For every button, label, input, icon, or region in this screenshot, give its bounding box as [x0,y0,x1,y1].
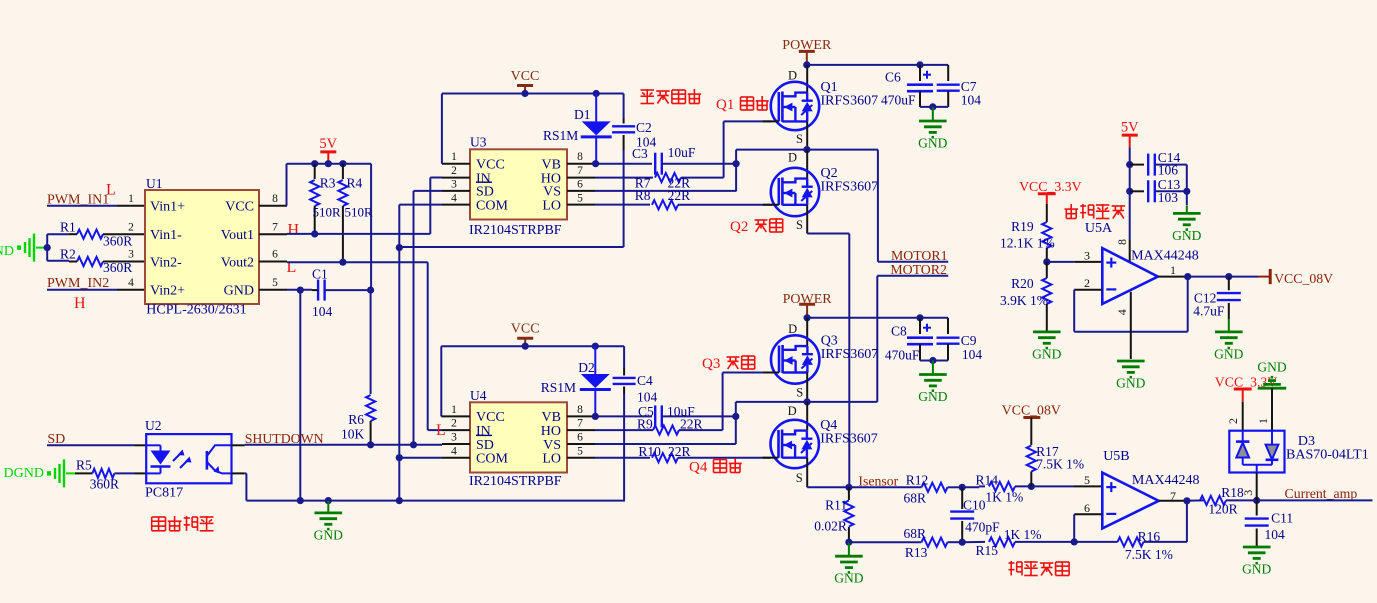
power VCC port U4 [511,322,540,347]
svg-text:GND: GND [918,136,947,151]
pin 4 U3 COM [442,192,470,204]
svg-text:VCC_08V: VCC_08V [1002,402,1061,417]
svg-text:R8: R8 [635,188,651,203]
svg-text:R14: R14 [976,473,999,488]
wire R7 to Q1 gate [724,121,772,177]
ground GND inverted D3 [1257,360,1286,431]
svg-text:1: 1 [451,404,457,416]
svg-text:VCC_3.3V: VCC_3.3V [1019,179,1082,194]
svg-text:7.5K 1%: 7.5K 1% [1125,547,1173,562]
svg-text:LO: LO [542,452,561,467]
svg-text:8: 8 [1115,239,1129,245]
svg-text:7: 7 [577,418,583,430]
wire R12 to R14 [962,485,985,488]
svg-text:Q3: Q3 [702,356,720,372]
annotation 半桥驱动 [641,89,702,104]
svg-text:D: D [788,68,797,82]
svg-text:GND: GND [224,284,254,299]
capacitor C1 104 [297,267,375,320]
wire C3 to switch node [736,150,878,192]
transistor Q2 IRFS3607 [763,150,878,234]
wire SD to U2 [47,444,146,446]
op-amp U3 IR2104 driver IC [469,135,567,238]
svg-text:IRFS3607: IRFS3607 [821,347,879,362]
op-amp U4 IR2104 driver IC [469,388,567,489]
svg-text:4: 4 [451,445,457,457]
net label MOTOR1 [878,150,948,263]
svg-text:104: 104 [312,304,333,319]
pin 4 U4 COM [399,445,470,457]
wire capacitor ground rail 1 [920,103,948,110]
svg-text:Vin2-: Vin2- [150,255,182,270]
capacitor C8 470uF [885,318,933,363]
svg-text:3: 3 [128,249,134,261]
op-amp U5B MAX44248 [1102,449,1199,528]
svg-text:Q4: Q4 [689,460,708,476]
annotation Q2关断 [730,219,783,235]
svg-text:Vout1: Vout1 [221,228,254,243]
power VCC_3.3V port R19 [1019,179,1082,222]
ground GND main rail [314,501,343,543]
wire C14 C13 ground drop [1183,165,1190,205]
svg-text:Current_amp: Current_amp [1285,486,1358,501]
op-amp U1 HCPL-2630/2631 optocoupler IC [145,176,259,318]
svg-text:IRFS3607: IRFS3607 [821,94,879,109]
svg-text:22R: 22R [668,444,691,459]
svg-text:GND: GND [1242,562,1271,577]
diode D3 BAS70-04LT1 [1226,418,1369,473]
svg-text:MAX44248: MAX44248 [1131,249,1199,264]
svg-text:Vin1-: Vin1- [150,228,182,243]
svg-text:IR2104STRPBF: IR2104STRPBF [469,474,562,489]
svg-text:6: 6 [577,179,583,191]
net label SHUTDOWN [245,431,324,446]
svg-text:PC817: PC817 [145,486,183,501]
svg-text:2: 2 [1226,418,1240,424]
ground GND R20 [1032,332,1061,362]
resistor R17 7.5K 1% [1027,444,1084,487]
resistor R6 10K [341,395,375,445]
resistor R20 3.9K 1% [1000,262,1051,331]
ground AGND [0,234,47,262]
node AGND junction [44,234,69,261]
ground GND C11 [1242,547,1271,577]
pin 2 U4 IN [436,418,470,439]
annotation Q4导通 [689,459,742,476]
ground GND U5A pin4 [1116,361,1145,391]
resistor R9 22R [595,416,723,434]
resistor R19 12.1K 1% [1000,219,1055,266]
svg-text:103: 103 [1158,190,1179,205]
svg-text:GND: GND [834,571,863,586]
wire C2 ground return [399,246,623,248]
svg-text:360R: 360R [103,233,132,248]
transistor Q4 IRFS3607 [763,402,878,487]
svg-text:1: 1 [128,193,134,205]
pin 1 U5A output [1158,263,1233,280]
svg-text:0.02R: 0.02R [814,519,847,534]
pin 6 U5B inverting [1074,501,1102,542]
svg-text:U5A: U5A [1085,221,1113,236]
svg-text:4: 4 [451,192,457,204]
svg-text:Vin2+: Vin2+ [150,284,185,299]
svg-text:U5B: U5B [1103,449,1129,464]
wire U3 COM to ground [396,205,442,501]
svg-text:8: 8 [577,404,583,416]
svg-text:D: D [788,322,797,336]
svg-text:IRFS3607: IRFS3607 [821,180,879,195]
capacitor C14 106 [1130,150,1187,178]
net label PWM_IN2 [47,276,109,312]
svg-text:U2: U2 [145,418,162,433]
svg-text:10K: 10K [341,427,365,442]
svg-text:U4: U4 [470,388,487,403]
svg-text:LO: LO [542,198,561,213]
svg-text:7: 7 [1170,489,1176,503]
svg-text:H: H [288,222,300,239]
transistor Q3 IRFS3607 [763,318,878,402]
svg-text:HO: HO [541,424,561,439]
resistor R4 510R [338,164,373,263]
svg-text:7: 7 [272,221,278,233]
annotation 过流保护 [1065,204,1126,219]
pin 7 U3 HO [567,165,595,178]
svg-text:Isensor: Isensor [858,473,898,488]
pin 2 U3 IN [442,165,470,178]
svg-text:VCC: VCC [511,322,540,337]
wire Isensor row [849,486,922,488]
capacitor C7 104 [937,65,982,108]
svg-text:5: 5 [577,192,583,204]
resistor R3 510R [310,164,341,234]
resistor R7 22R [595,173,724,190]
op-amp U2 PC817 optocoupler [145,418,232,501]
svg-text:22R: 22R [680,416,703,431]
resistor R1 [60,220,145,249]
svg-text:C11: C11 [1271,511,1293,526]
svg-text:R1: R1 [60,220,76,235]
svg-text:22R: 22R [668,188,691,203]
svg-text:R20: R20 [1011,276,1034,291]
svg-text:3.9K 1%: 3.9K 1% [1000,293,1048,308]
svg-text:VCC_08V: VCC_08V [1274,271,1333,286]
pin 6 U4 VS [567,432,736,444]
svg-text:106: 106 [1158,163,1179,178]
svg-text:C9: C9 [961,333,977,348]
power POWER port 2 [783,292,833,318]
resistor R11 0.02R shunt [814,487,853,546]
wire VCC rail U3 [442,90,624,164]
svg-text:D: D [788,404,797,418]
svg-text:5: 5 [577,445,583,457]
svg-text:AGND: AGND [0,244,14,259]
wire net H row [287,178,442,238]
pin 6 U3 VS [567,179,736,191]
pin 8 U3 VB [567,151,599,167]
net label Current_amp [1257,486,1373,501]
svg-text:510R: 510R [313,205,342,220]
wire bottom sense row [849,539,966,546]
annotation 电流采集 [1009,561,1070,576]
wire 5V rail [287,160,372,167]
svg-text:C6: C6 [885,69,901,84]
pin 7 U5B output [1159,489,1204,504]
svg-text:104: 104 [637,389,658,404]
annotation Q1导通 [716,96,769,113]
svg-text:12.1K 1%: 12.1K 1% [1000,236,1055,251]
svg-text:360R: 360R [90,476,119,491]
net label Isensor [858,473,898,488]
svg-text:COM: COM [476,198,508,213]
svg-text:68R: 68R [904,491,927,506]
svg-text:Vout2: Vout2 [221,255,254,270]
capacitor C5 10uF [595,404,739,428]
svg-text:MOTOR2: MOTOR2 [890,262,947,277]
wire U3 SD to SHUTDOWN [414,191,443,445]
svg-text:MAX44248: MAX44248 [1132,473,1200,488]
power 5V port U5A [1121,120,1139,165]
resistor R5 360R [75,458,146,492]
ground GND shunt [834,542,863,586]
svg-text:104: 104 [1265,527,1286,542]
svg-text:VCC: VCC [225,200,254,215]
pin 8 U1 VCC [259,164,287,206]
capacitor C12 4.7uF [1193,277,1241,320]
svg-text:Q2: Q2 [730,219,748,235]
pin 5 U3 LO [567,192,595,204]
svg-text:2: 2 [128,221,134,233]
svg-text:R3: R3 [320,175,336,190]
svg-text:RS1M: RS1M [541,380,576,395]
svg-text:C10: C10 [963,498,986,513]
svg-text:470uF: 470uF [881,92,916,107]
wire R19 R20 to pin 3 [1047,249,1103,263]
resistor R13 68R [904,526,963,560]
svg-text:GND: GND [1116,376,1145,391]
svg-text:IR2104STRPBF: IR2104STRPBF [469,223,562,238]
svg-text:GND: GND [1032,346,1061,361]
svg-text:1: 1 [1256,418,1270,424]
wire PWM_IN2 to U1 pin 4 [47,277,145,290]
ground GND C12 [1214,319,1243,362]
node switch node 2 [804,398,811,405]
svg-text:C4: C4 [637,373,653,388]
pin 7 U1 Vout1 net H [259,221,300,238]
capacitor C3 10uF [596,145,740,175]
capacitor C11 104 [1245,500,1293,547]
svg-text:3: 3 [451,432,457,444]
capacitor C10 470pF [950,487,1000,542]
svg-text:Vin1+: Vin1+ [150,200,185,215]
power VCC_08V port output [1229,269,1333,286]
power VCC port U3 [511,69,540,94]
svg-text:C3: C3 [632,146,648,161]
svg-text:IN: IN [476,424,491,439]
svg-text:2: 2 [451,165,457,177]
svg-text:R6: R6 [348,412,364,427]
resistor R2 [60,246,145,275]
svg-text:R12: R12 [906,473,929,488]
wire ground rail [246,497,624,504]
wire R14 to U5B pin 5 [1031,473,1102,487]
svg-text:Q1: Q1 [716,97,734,113]
ground DGND [4,459,75,487]
node switch node 1 [803,146,810,153]
capacitor C4 104 [613,346,658,500]
wire net L row [287,259,442,431]
svg-text:VCC: VCC [476,158,505,173]
svg-text:R9: R9 [637,416,653,431]
annotation Q3关断 [702,356,755,372]
svg-text:4.7uF: 4.7uF [1193,304,1225,319]
svg-text:COM: COM [476,452,508,467]
wire Q2 source to shunt [807,234,849,488]
diode D2 RS1M [541,346,611,416]
power VCC_08V port R17 [1002,402,1061,445]
svg-text:5: 5 [1084,473,1090,487]
svg-text:3: 3 [1084,249,1090,263]
svg-text:R19: R19 [1011,219,1034,234]
power VCC_3.3V port D3 [1215,375,1278,431]
diode D1 RS1M [543,94,612,164]
svg-text:7.5K 1%: 7.5K 1% [1036,456,1084,471]
svg-text:GND: GND [1172,228,1201,243]
capacitor C13 103 [1130,177,1187,205]
net label SD [47,432,65,447]
svg-text:GND: GND [918,389,947,404]
svg-text:IRFS3607: IRFS3607 [820,432,878,447]
pin 8 U4 VB [567,404,599,420]
svg-text:D2: D2 [578,360,595,375]
svg-text:R2: R2 [60,246,76,261]
wire Q4 source to shunt [807,484,852,491]
wire C5 to switch node 2 [736,402,878,444]
svg-text:L: L [436,422,446,439]
net label PWM_IN1 [47,182,116,208]
svg-text:R10: R10 [638,444,661,459]
svg-text:4: 4 [128,277,134,289]
svg-text:10uF: 10uF [668,145,696,160]
op-amp U5A MAX44248 [1085,221,1199,304]
svg-text:6: 6 [1084,501,1090,515]
svg-text:6: 6 [577,432,583,444]
resistor R16 7.5K 1% [1074,501,1187,562]
wire GND drop from U1 [299,290,301,501]
svg-text:5V: 5V [1121,120,1139,136]
svg-text:5: 5 [272,277,278,289]
svg-text:2: 2 [451,418,457,430]
svg-text:R15: R15 [976,543,999,558]
svg-text:GND: GND [1257,360,1286,375]
wire SHUTDOWN row [232,441,443,448]
svg-text:470pF: 470pF [965,519,1000,534]
svg-text:S: S [796,218,803,232]
svg-text:U3: U3 [470,135,487,150]
svg-text:U1: U1 [146,176,163,191]
pin 2 U5A inverting feedback [1074,276,1188,332]
svg-text:S: S [796,132,803,146]
resistor R14 1K 1% [976,473,1035,505]
wire PWM_IN1 to U1 pin 1 [47,193,145,206]
ground GND C13 C14 [1172,205,1201,243]
svg-text:R11: R11 [825,498,847,513]
svg-text:S: S [796,386,803,400]
annotation 光耦隔离 [152,516,214,531]
power POWER port 1 [782,38,832,65]
svg-text:SHUTDOWN: SHUTDOWN [245,431,324,446]
svg-text:POWER: POWER [783,292,833,307]
svg-text:1: 1 [451,151,457,163]
resistor R8 22R [595,188,772,209]
svg-text:S: S [796,471,803,485]
svg-text:VCC: VCC [511,69,540,84]
svg-text:R4: R4 [347,175,363,190]
capacitor C2 104 [612,94,656,248]
power 5V port [319,136,337,164]
pin 5 U4 LO [567,445,595,457]
wire 5V trunk to pin 8 [1115,161,1133,262]
pin 3 D3 [1241,473,1257,501]
resistor R18 120R [1200,485,1260,516]
svg-text:470uF: 470uF [885,348,920,363]
svg-text:H: H [74,295,86,312]
wire capacitor ground rail 2 [920,357,948,364]
pin 6 U1 Vout2 net L [259,249,296,276]
wire POWER rail 2 [804,314,949,321]
svg-text:5V: 5V [319,136,337,152]
pin 3 U3 SD [442,179,470,191]
svg-text:104: 104 [961,92,982,107]
svg-text:4: 4 [1115,309,1129,315]
pin 4 U5A ground [1115,292,1131,359]
svg-text:GND: GND [1214,346,1243,361]
resistor R12 68R [904,473,966,506]
svg-text:8: 8 [272,193,278,205]
pin 7 U4 HO [567,418,595,430]
svg-text:1: 1 [1170,263,1176,277]
svg-text:C8: C8 [891,324,907,339]
svg-text:1K 1%: 1K 1% [1004,527,1042,542]
wire U2 emitter to ground rail [232,473,247,500]
wire VCC rail U4 [441,343,624,417]
svg-text:VB: VB [542,158,561,173]
ground GND half bridge 2 [918,361,947,405]
svg-text:MOTOR1: MOTOR1 [891,248,948,263]
transistor Q1 IRFS3607 [763,65,878,150]
svg-text:C2: C2 [636,120,652,135]
svg-text:7: 7 [577,165,583,177]
svg-text:104: 104 [962,347,983,362]
svg-text:R5: R5 [76,458,92,473]
svg-text:68R: 68R [904,526,927,541]
ground GND half bridge 1 [918,107,947,151]
pin 3 U4 SD [442,432,470,444]
svg-text:L: L [106,182,116,199]
pin 5 U1 GND [259,277,312,290]
svg-text:120R: 120R [1208,502,1237,517]
svg-text:1K 1%: 1K 1% [985,490,1023,505]
wire POWER rail 1 [803,61,948,68]
svg-text:D1: D1 [574,107,591,122]
svg-text:8: 8 [577,151,583,163]
pin 1 U4 VCC [441,404,470,416]
svg-text:C1: C1 [312,267,328,282]
svg-text:DGND: DGND [4,466,44,481]
capacitor C9 104 [937,318,983,362]
svg-text:6: 6 [272,249,278,261]
svg-text:D: D [788,151,797,165]
wire 5V drop to R6 [370,164,373,394]
